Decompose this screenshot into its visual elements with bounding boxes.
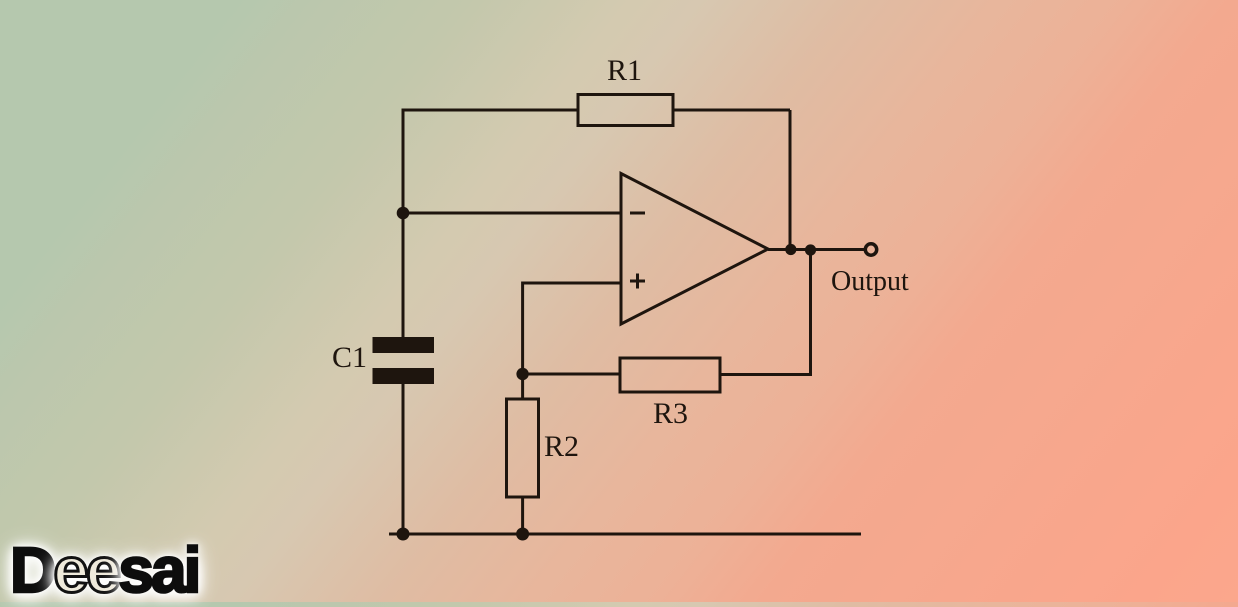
wire: R2 bottom lead — [521, 497, 524, 534]
wire: top feedback left segment — [403, 109, 578, 112]
capacitor C1 top plate — [373, 337, 435, 353]
svg-text:C1: C1 — [332, 341, 367, 374]
wire: right vertical from R1 down to output node — [789, 110, 792, 250]
wire: left vertical lower (capacitor to ground rail) — [402, 383, 405, 534]
capacitor C1 bottom plate — [373, 368, 435, 384]
output terminal circle — [865, 244, 876, 255]
op-amp minus sign — [630, 212, 645, 215]
svg-text:Output: Output — [831, 266, 909, 297]
wire: top feedback right segment — [673, 109, 790, 112]
node: non-inverting / R2 / R3 junction — [516, 368, 528, 380]
resistor R1 — [578, 95, 673, 126]
wire: non-inverting input vertical — [521, 282, 524, 375]
resistor R2 — [507, 399, 539, 497]
op-amp U1 — [621, 174, 768, 325]
wire: output node down to R3 — [809, 250, 812, 375]
node: inverting input junction — [397, 207, 410, 220]
svg-text:R2: R2 — [544, 430, 579, 463]
wire: R3 right segment — [720, 373, 812, 376]
node: ground rail left junction — [397, 528, 410, 541]
node: output junction right — [805, 244, 816, 255]
node: ground rail R2 junction — [516, 528, 529, 541]
node: output junction left — [785, 244, 796, 255]
wire: inverting input — [403, 212, 621, 215]
wire: output to terminal — [768, 248, 865, 251]
wire: bottom ground rail — [389, 533, 861, 536]
wire: non-inverting input horizontal — [523, 282, 621, 285]
svg-text:R3: R3 — [653, 397, 688, 430]
resistor R3 — [620, 358, 720, 392]
wire: R3 left segment — [523, 373, 620, 376]
svg-text:R1: R1 — [607, 54, 642, 87]
wire: R2 top lead — [521, 374, 524, 399]
Deesai watermark logo — [10, 533, 198, 607]
wire: left vertical upper (top wire to capacitor) — [402, 109, 405, 339]
op-amp plus sign — [630, 274, 645, 289]
